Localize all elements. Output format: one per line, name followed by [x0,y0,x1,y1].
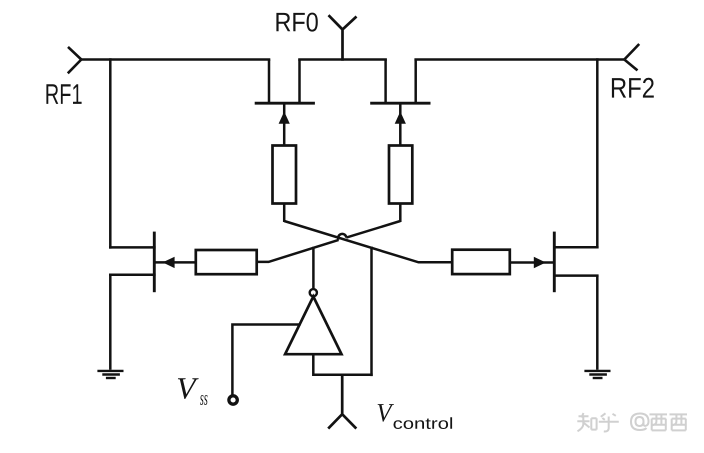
transistor Q4 (right shunt FET) [511,232,599,293]
inverter U1 bubble [310,289,317,296]
watermark char 知 [577,413,596,431]
transistor Q2 (right series FET) [370,60,430,147]
transistor Q1 (left series FET) [255,60,315,147]
label Vss subscript [200,395,208,405]
wire RF2 rail [414,58,624,61]
resistor R2 (right gate resistor, vertical) [389,146,412,204]
transistor Q3 (left shunt FET) [109,232,197,293]
wire hop at crossing [338,234,346,240]
ground (left) [97,371,123,378]
wire RF1 vertical drop [109,58,112,248]
label RF1 [46,84,81,104]
wire inverter input [313,354,372,375]
port arrow RF2 [624,44,639,70]
label Vcontrol [378,404,394,422]
wire RF2 vertical drop [596,58,599,248]
wire Vcontrol drop [370,247,373,377]
wire RF1 rail [81,58,270,61]
wire center rail [298,58,387,61]
antenna Vcontrol [328,375,356,429]
terminal Vss circle [229,396,237,404]
port arrow RF1 [68,47,82,73]
wire Vss to inverter [232,325,300,395]
watermark char 西 (2) [670,414,688,430]
wire R1 bottom stub [283,204,286,223]
ground (right) [584,371,610,378]
inverter U1 triangle [285,297,341,355]
watermark char 乎 [599,413,619,431]
wire diagonal B (R2 to R3, hops over A) [257,221,401,262]
label RF2 [612,78,654,98]
wire diagonal A (R1 to R4, with Vcontrol tap) [284,221,452,262]
watermark char @ [631,414,649,431]
wire inverter output drop [312,247,315,290]
label RF0 [276,13,317,32]
wire ground drop right [596,276,599,370]
watermark 知乎 @西西 [577,413,687,431]
resistor R3 (left horizontal) [196,250,257,274]
watermark char 西 (1) [650,414,668,430]
antenna RF0 [329,15,357,61]
wire R2 bottom stub [399,204,402,223]
resistor R4 (right horizontal) [452,250,510,274]
label Vss [178,378,199,399]
wire ground drop left [109,275,112,370]
resistor R1 (left gate resistor, vertical) [273,146,297,204]
